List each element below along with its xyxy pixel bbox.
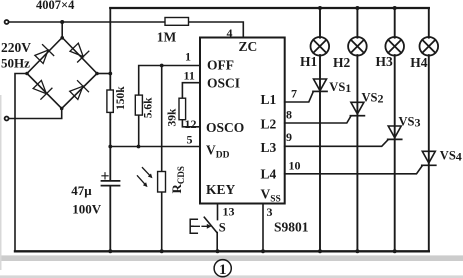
svg-text:39k: 39k (167, 108, 179, 127)
svg-text:5.6k: 5.6k (142, 97, 154, 118)
svg-text:1: 1 (219, 262, 227, 278)
svg-text:H2: H2 (333, 55, 351, 70)
svg-text:4007×4: 4007×4 (36, 0, 75, 12)
svg-text:100V: 100V (72, 202, 102, 217)
svg-text:9: 9 (286, 130, 292, 144)
svg-text:L3: L3 (261, 140, 277, 155)
svg-text:VSS: VSS (261, 187, 281, 205)
svg-text:1: 1 (185, 49, 191, 63)
svg-text:RCDS: RCDS (169, 166, 186, 193)
svg-text:VS4: VS4 (440, 148, 462, 163)
svg-text:8: 8 (286, 108, 292, 122)
svg-text:VS1: VS1 (329, 80, 351, 95)
svg-text:12: 12 (185, 117, 197, 131)
svg-text:3: 3 (267, 205, 273, 219)
svg-text:150k: 150k (115, 86, 127, 110)
svg-text:13: 13 (223, 205, 235, 219)
svg-text:S9801: S9801 (274, 220, 309, 235)
svg-text:4: 4 (227, 26, 233, 40)
svg-text:ZC: ZC (239, 39, 258, 54)
svg-text:H3: H3 (376, 54, 394, 69)
svg-text:OSCO: OSCO (206, 120, 244, 135)
svg-text:OFF: OFF (207, 58, 234, 73)
svg-text:47μ: 47μ (71, 183, 92, 198)
svg-text:VS2: VS2 (362, 91, 384, 106)
svg-text:VDD: VDD (206, 143, 230, 161)
svg-text:1M: 1M (157, 30, 177, 45)
svg-text:KEY: KEY (206, 182, 236, 197)
svg-text:L4: L4 (261, 166, 277, 181)
svg-text:50Hz: 50Hz (1, 56, 30, 71)
svg-text:220V: 220V (1, 40, 31, 55)
svg-text:7: 7 (291, 87, 297, 101)
svg-text:VS3: VS3 (399, 115, 421, 130)
svg-text:OSCI: OSCI (207, 76, 240, 91)
svg-text:10: 10 (289, 159, 301, 173)
svg-text:H1: H1 (300, 54, 318, 69)
svg-text:L1: L1 (261, 92, 277, 107)
svg-text:H4: H4 (410, 55, 428, 70)
svg-text:11: 11 (184, 69, 195, 83)
svg-text:L2: L2 (261, 116, 277, 131)
svg-text:S: S (219, 221, 226, 235)
svg-text:5: 5 (187, 133, 193, 147)
